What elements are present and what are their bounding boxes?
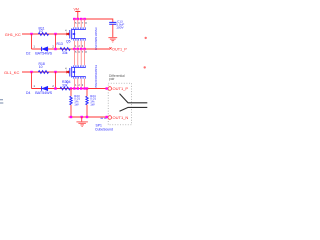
capacitor C13 1.0uF 100V (109, 22, 116, 24)
wire diode row lower (32, 88, 71, 90)
wire diode row upper (32, 48, 71, 50)
svg-text:BSC060N10NS3: BSC060N10NS3 (94, 27, 98, 50)
wire right vertical lower (55, 72, 57, 89)
svg-text:10: 10 (39, 65, 43, 69)
wire left vertical upper (31, 34, 33, 49)
net label OUT1_P (bus end) (109, 47, 111, 49)
pin cross Q4 gate (67, 71, 69, 73)
node junction (55.5,72) (54, 71, 56, 73)
connector pad pin 2 (108, 116, 112, 120)
speaker symbol (120, 94, 148, 112)
resistor R23 (70, 96, 72, 104)
svg-text:Q4: Q4 (66, 80, 71, 84)
svg-text:pair: pair (109, 77, 115, 81)
wire ground bus (69, 116, 109, 118)
svg-text:BAT54WS: BAT54WS (35, 52, 52, 56)
differential pair marks on OUT1_N wire (101, 117, 107, 119)
Q4 drain pins (74, 49, 84, 65)
svg-text:33k: 33k (62, 84, 68, 88)
wire gate row upper (22, 33, 70, 35)
resistor R24 (86, 96, 88, 104)
svg-text:OUT1_P: OUT1_P (112, 48, 127, 52)
wire VM bus (73, 19, 113, 23)
connector pad pin 1 (108, 87, 112, 91)
Q5 drain pins (74, 19, 84, 27)
svg-text:BSC060N10NS3: BSC060N10NS3 (94, 65, 98, 88)
svg-text:Q5: Q5 (66, 39, 71, 43)
pin cross Q5 gate (67, 33, 69, 35)
svg-text:1W: 1W (74, 103, 79, 107)
node junction OUT bus pins (73, 48, 75, 50)
node junction VM bus pins (73, 18, 75, 20)
svg-text:VM: VM (74, 7, 79, 11)
svg-text:D4: D4 (26, 91, 30, 95)
svg-text:BAT54WS: BAT54WS (35, 91, 52, 95)
svg-text:100V: 100V (116, 26, 124, 30)
node junction (55.5,49) (54, 48, 56, 50)
wire left vertical lower (31, 72, 33, 89)
node junction source bus pins (73, 87, 75, 89)
node junction (31.5,72) (30, 71, 32, 73)
node junction (55.5,88.5) (54, 87, 56, 89)
svg-text:1W: 1W (90, 103, 95, 107)
svg-text:CubeSound: CubeSound (95, 127, 113, 131)
node junction (55.5,34) (54, 33, 56, 35)
wire right vertical upper (55, 34, 57, 49)
node junction ground stem (81, 116, 83, 118)
node junction ground bus (70, 116, 72, 118)
svg-text:D2: D2 (26, 52, 30, 56)
Q5 source pins (74, 41, 84, 49)
wire OUT bus (71, 48, 110, 50)
wire gate row lower (22, 71, 70, 73)
Q5 pin hooks (74, 27, 86, 29)
svg-text:GH1_KC: GH1_KC (5, 32, 21, 37)
svg-text:OUT1_P: OUT1_P (113, 86, 129, 91)
wire source bus lower (71, 88, 108, 90)
edge fragment left (0, 100, 3, 103)
ground (C13) (108, 38, 117, 43)
marker cross right 2 (144, 66, 146, 68)
Q4 pin hooks (74, 65, 86, 67)
Q4 source pins (74, 79, 84, 89)
svg-text:OUT1_N: OUT1_N (113, 115, 129, 120)
node junction (31.5,34) (30, 33, 32, 35)
svg-text:R13: R13 (57, 42, 63, 46)
marker cross right 1 (145, 37, 147, 39)
svg-text:GL1_KC: GL1_KC (4, 70, 19, 75)
ground (bottom) (81, 117, 83, 122)
svg-text:33k: 33k (62, 51, 68, 55)
connector SP1 dashed box (108, 83, 131, 125)
